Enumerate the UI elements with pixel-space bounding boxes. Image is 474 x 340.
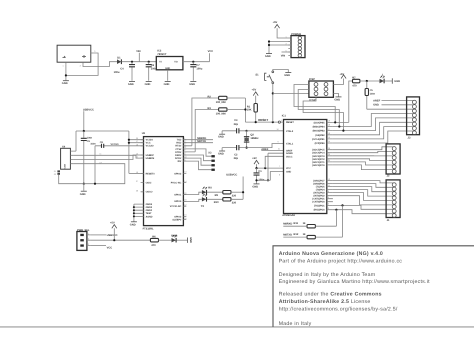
svg-text:X3: X3 — [208, 152, 212, 155]
svg-text:VI: VI — [159, 61, 162, 64]
svg-text:C3: C3 — [234, 119, 238, 122]
wire M8RXD tap — [335, 210, 337, 227]
power jack X1 — [57, 45, 91, 62]
svg-text:16: 16 — [328, 132, 330, 135]
svg-text:SLEEP#: SLEEP# — [172, 218, 182, 221]
svg-text:C2: C2 — [234, 153, 238, 156]
svg-text:470: 470 — [151, 244, 156, 247]
svg-text:GND: GND — [218, 153, 224, 156]
wire usb gnd — [73, 164, 124, 184]
wire PB4 to J3 pin4 — [333, 114, 413, 127]
svg-text:USB: USB — [64, 164, 67, 169]
wire pin1 USBVCC — [90, 234, 117, 237]
svg-text:GPIO0: GPIO0 — [174, 200, 182, 203]
pin numbers atmega right — [328, 120, 330, 210]
wire TXD row to J1 pin7 — [333, 205, 393, 209]
svg-text:VCC3O: VCC3O — [146, 145, 154, 148]
junction — [264, 167, 266, 169]
svg-text:GND3: GND3 — [146, 203, 153, 206]
capacitor C7 — [190, 62, 202, 81]
svg-text:AGND: AGND — [286, 152, 293, 155]
svg-text:470: 470 — [352, 85, 357, 88]
svg-text:GND: GND — [218, 136, 224, 139]
wire VCC output — [183, 53, 210, 62]
wire — [231, 191, 243, 193]
svg-text:100_NM: 100_NM — [216, 101, 226, 104]
svg-text:GND: GND — [145, 83, 151, 86]
svg-text:24: 24 — [328, 159, 330, 162]
junction — [335, 209, 337, 211]
wire AREF to J3 — [373, 99, 413, 102]
svg-text:GND: GND — [373, 104, 379, 107]
svg-text:GND: GND — [128, 83, 134, 86]
svg-text:RX: RX — [208, 187, 212, 190]
svg-text:U3: U3 — [142, 132, 146, 135]
junction — [192, 61, 194, 63]
svg-text:100u: 100u — [196, 68, 202, 71]
svg-text:(MISO)PB4: (MISO)PB4 — [313, 126, 326, 129]
svg-text:GND: GND — [62, 82, 68, 85]
junction — [338, 125, 340, 127]
wire AGND branch — [268, 153, 284, 180]
svg-text:AREF: AREF — [261, 148, 268, 151]
svg-text:11: 11 — [328, 184, 330, 187]
wire ICSP +5V — [333, 79, 343, 85]
wire RESET net — [245, 118, 278, 122]
capacitor C1 — [254, 168, 265, 182]
wire CTS to X3 — [183, 149, 211, 156]
connector PWR_SEL — [77, 229, 91, 251]
+5V symbol — [273, 21, 280, 28]
wire ICSP mosi to PB3 — [303, 97, 343, 130]
wire S1 top to gnd — [273, 70, 289, 73]
svg-text:220: 220 — [232, 202, 237, 205]
svg-text:15: 15 — [136, 153, 138, 156]
svg-text:(ADC0)PC0: (ADC0)PC0 — [312, 164, 325, 167]
svg-text:R7: R7 — [352, 76, 356, 79]
wire ICSP gnd — [333, 94, 338, 97]
junction — [366, 80, 368, 82]
junction — [246, 147, 248, 149]
svg-text:(ADC2)PC2: (ADC2)PC2 — [312, 158, 325, 161]
svg-text:PWR: PWR — [171, 234, 177, 237]
svg-text:(T0)PD4: (T0)PD4 — [316, 189, 326, 192]
svg-text:S1: S1 — [54, 170, 56, 173]
svg-text:C6: C6 — [151, 64, 155, 67]
svg-text:VCCIO: VCCIO — [146, 139, 154, 142]
svg-text:1: 1 — [63, 64, 64, 67]
wire GPIO0 to TX led — [183, 199, 202, 201]
wire XTAL1 — [247, 144, 284, 148]
svg-text:24: 24 — [184, 214, 186, 217]
svg-text:(CNT1)PD1: (CNT1)PD1 — [312, 198, 325, 201]
svg-text:VIN: VIN — [281, 55, 285, 58]
svg-text:GND: GND — [252, 185, 258, 188]
wire led to gnd — [177, 239, 188, 241]
ground — [218, 134, 225, 139]
resistor R3 — [208, 107, 228, 115]
svg-text:15: 15 — [328, 136, 330, 139]
svg-text:GND: GND — [286, 170, 291, 173]
junction — [268, 40, 270, 42]
wire C8 to gnd — [94, 146, 96, 184]
wire PB5 row — [333, 121, 349, 123]
wire D+ — [73, 155, 143, 164]
wire VIN net — [122, 61, 156, 63]
+5V symbol — [252, 89, 259, 96]
svg-text:Part of the Arduino project ht: Part of the Arduino project http://www.a… — [279, 259, 403, 265]
capacitor C9 — [81, 131, 93, 184]
wire to ground — [83, 184, 85, 191]
svg-text:GND: GND — [284, 74, 290, 77]
svg-text:VCC3O: VCC3O — [111, 143, 119, 146]
svg-text:C1: C1 — [258, 170, 262, 173]
wire XTAL2 — [247, 130, 284, 132]
svg-text:16MHz: 16MHz — [250, 137, 259, 140]
wire DCD to X3 — [183, 158, 211, 165]
svg-text:RXD: RXD — [176, 142, 181, 145]
wire PB1 to J3 pin7 — [333, 127, 413, 139]
svg-text:GND: GND — [265, 55, 271, 58]
pin numbers U3 right — [184, 137, 186, 220]
svg-text:GPIO2: GPIO2 — [174, 172, 182, 175]
svg-text:2: 2 — [88, 238, 89, 241]
resistor R9 — [215, 191, 237, 198]
svg-text:27: 27 — [136, 180, 138, 183]
svg-text:R12: R12 — [294, 233, 299, 236]
wire RESET# — [129, 172, 144, 174]
junction — [242, 191, 244, 193]
ground — [252, 184, 259, 189]
svg-text:8: 8 — [279, 174, 280, 177]
svg-text:(INT1)PD3: (INT1)PD3 — [313, 192, 325, 195]
ground — [130, 222, 137, 227]
wire RTS to R2 — [183, 98, 218, 146]
ground — [62, 81, 69, 86]
capacitor C6 — [146, 62, 157, 81]
svg-text:R6: R6 — [152, 235, 156, 238]
svg-text:100n: 100n — [370, 93, 376, 96]
pin 2 stub of X1 — [80, 62, 83, 67]
svg-text:100n: 100n — [87, 137, 93, 140]
svg-text:R9: R9 — [215, 194, 219, 197]
junction — [334, 121, 336, 123]
regulator IC2 7805CT — [156, 50, 183, 70]
svg-text:Q2: Q2 — [250, 133, 254, 136]
svg-text:GND: GND — [189, 237, 192, 243]
wire — [159, 239, 172, 241]
svg-text:1: 1 — [285, 36, 286, 39]
wire PC0 to J2 — [333, 165, 393, 170]
svg-text:3: 3 — [328, 203, 329, 206]
svg-text:Designed in Italy by the Ardui: Designed in Italy by the Arduino Team — [279, 272, 376, 278]
svg-text:POWER: POWER — [291, 33, 301, 36]
svg-text:X4: X4 — [62, 145, 66, 148]
svg-text:OSCO: OSCO — [146, 191, 153, 194]
capacitor C8 — [90, 141, 143, 148]
svg-text:26: 26 — [328, 153, 330, 156]
svg-text:7805CT: 7805CT — [157, 53, 167, 56]
svg-text:22p: 22p — [234, 123, 239, 126]
svg-text:Arduino Nuova Generazione (NG: Arduino Nuova Generazione (NG) v.4.0 — [279, 251, 383, 257]
svg-text:DTR#: DTR# — [175, 151, 182, 154]
wire PD6 to J1 — [333, 184, 393, 188]
wire — [227, 97, 245, 99]
svg-text:17: 17 — [328, 128, 330, 131]
svg-text:OSCI: OSCI — [146, 182, 152, 185]
svg-text:(ADC4)PC4: (ADC4)PC4 — [312, 152, 325, 155]
wire PC4 to J2 — [333, 151, 393, 152]
wire +5V to VCC pin — [257, 164, 284, 168]
svg-text:TX: TX — [201, 205, 205, 208]
wire PB0 to J3 pin8 — [333, 131, 413, 143]
ground — [284, 73, 291, 78]
wire VIN pin — [282, 51, 292, 53]
wire POWER gnd pins — [269, 42, 291, 54]
svg-text:ICSP: ICSP — [309, 78, 315, 81]
svg-text:(INT0)PD2: (INT0)PD2 — [313, 195, 325, 198]
node VCC — [208, 50, 214, 53]
wire PD7 to J1 — [333, 181, 393, 183]
svg-text:USBVCC: USBVCC — [226, 173, 237, 176]
svg-text:AGND: AGND — [146, 215, 153, 218]
svg-text:GND2: GND2 — [146, 206, 153, 209]
wire — [283, 225, 336, 227]
wire led to gnd — [385, 80, 393, 82]
svg-text:USBVCC: USBVCC — [83, 108, 94, 111]
svg-text:C4: C4 — [120, 67, 124, 70]
wire IC2 gnd pin — [167, 70, 169, 81]
svg-text:21: 21 — [278, 148, 280, 151]
svg-text:14: 14 — [328, 140, 330, 143]
IC1 ATMEGA8 — [282, 115, 327, 218]
wire — [207, 191, 223, 193]
pin RESET bubble — [278, 119, 283, 123]
svg-text:+5V: +5V — [252, 89, 257, 92]
wire C3 to gnd — [221, 131, 223, 134]
svg-text:(SCK)PB5: (SCK)PB5 — [314, 121, 326, 124]
svg-text:GND: GND — [165, 67, 170, 70]
junction — [133, 212, 135, 214]
svg-text:S2: S2 — [54, 173, 56, 176]
svg-text:3: 3 — [88, 243, 89, 246]
connector X3 — [208, 152, 214, 171]
junction — [83, 183, 85, 185]
wire PD4 to J1 — [333, 190, 393, 197]
capacitor C3 — [222, 119, 246, 133]
junction — [133, 209, 135, 211]
junction — [133, 206, 135, 208]
svg-text:RESET: RESET — [258, 118, 268, 122]
pin stubs atmega right — [327, 122, 333, 209]
ground — [265, 54, 272, 59]
wire — [360, 80, 380, 82]
wire PC1 to J2 — [333, 162, 393, 165]
svg-text:VCC: VCC — [107, 246, 113, 249]
resistor R12 — [283, 233, 315, 239]
wire +5V to POWER pin1 — [277, 28, 291, 38]
page bottom border — [0, 326, 474, 328]
resistor R11 — [283, 222, 315, 228]
wire DSR to X3 — [183, 155, 211, 161]
svg-text:AVCC: AVCC — [286, 155, 293, 158]
LED RX — [202, 187, 212, 195]
wire gnd pins column — [134, 204, 144, 221]
pin 3 stub of X1 — [91, 50, 95, 53]
ground — [80, 191, 87, 196]
pin stubs U3 left — [141, 140, 144, 192]
svg-text:M8RXD: M8RXD — [283, 222, 292, 225]
svg-text:DCD#: DCD# — [175, 157, 182, 160]
wire — [283, 236, 342, 238]
svg-text:(ADC5)PC5: (ADC5)PC5 — [312, 149, 325, 152]
pin stubs U3 right — [183, 140, 186, 220]
svg-text:100n: 100n — [90, 143, 96, 146]
svg-text:28: 28 — [328, 147, 330, 150]
svg-text:USBDP: USBDP — [146, 154, 155, 157]
junction — [133, 215, 135, 217]
svg-text:R11: R11 — [294, 222, 299, 225]
svg-text:D1: D1 — [117, 57, 121, 60]
wire TXD net M8RXD — [183, 137, 213, 140]
junction — [94, 183, 96, 185]
svg-text:(T1)PD5: (T1)PD5 — [316, 186, 326, 189]
junction — [131, 61, 133, 63]
wire leds to usbvcc — [231, 177, 243, 200]
ground — [188, 237, 192, 243]
LED PWR — [171, 234, 177, 242]
ground — [164, 82, 171, 87]
svg-text:220: 220 — [232, 194, 237, 197]
svg-text:1: 1 — [88, 232, 89, 235]
wire VBUS — [73, 131, 76, 151]
svg-text:USBVCC: USBVCC — [107, 234, 118, 237]
wire M8TXD tap — [342, 205, 344, 237]
svg-text:M8TXD: M8TXD — [197, 140, 206, 143]
svg-text:RESET: RESET — [286, 121, 294, 124]
svg-text:R2: R2 — [208, 96, 212, 99]
svg-text:1: 1 — [281, 119, 282, 122]
svg-text:DSR#: DSR# — [175, 154, 182, 157]
svg-text:+5V: +5V — [273, 21, 278, 24]
svg-text:13: 13 — [184, 171, 186, 174]
node VIN — [136, 50, 140, 61]
svg-text:GND: GND — [164, 83, 170, 86]
wire PB3 to J3 pin5 — [333, 118, 413, 131]
connector X4 usb — [54, 145, 74, 175]
svg-text:+5V: +5V — [110, 221, 115, 224]
wire gnd node — [257, 171, 284, 183]
svg-text:100_NM: 100_NM — [216, 113, 226, 116]
ground — [392, 78, 400, 83]
svg-text:RESET#: RESET# — [146, 172, 156, 175]
svg-text:AREF: AREF — [286, 149, 293, 152]
connector POWER — [291, 33, 305, 58]
svg-text:14: 14 — [136, 156, 138, 159]
svg-text:6: 6 — [328, 190, 329, 193]
junction — [128, 139, 130, 141]
svg-text:9: 9 — [278, 141, 279, 144]
svg-text:2: 2 — [328, 207, 329, 210]
wire pin2 to R6 — [90, 228, 150, 240]
svg-text:4: 4 — [328, 196, 329, 199]
svg-text:CTS#: CTS# — [175, 148, 182, 151]
resistor R7 — [352, 76, 360, 87]
node USBVCC — [83, 108, 94, 131]
resistor R10 — [214, 198, 237, 205]
svg-text:Released under the Creative Co: Released under the Creative Commons — [279, 292, 382, 298]
wire jack tip to D1 — [83, 62, 117, 67]
svg-text:GPIO1: GPIO1 — [174, 193, 182, 196]
wire ICSP sck to PB5 — [294, 85, 335, 123]
svg-text:Attribution-ShareAlike 2.5 Lic: Attribution-ShareAlike 2.5 License — [279, 299, 371, 305]
node USBVCC — [226, 173, 237, 176]
svg-text:(AIN1)PD7: (AIN1)PD7 — [313, 180, 325, 183]
svg-text:GND: GND — [394, 80, 400, 83]
wire RI to X3 — [183, 161, 211, 170]
wire usbvcc rail — [76, 131, 129, 173]
ground — [218, 151, 225, 156]
svg-text:RTS#: RTS# — [175, 145, 182, 148]
wire GND to J3 — [373, 104, 413, 107]
svg-text:(SS)PB2: (SS)PB2 — [315, 134, 325, 137]
crystal Q2 — [244, 131, 259, 148]
svg-text:(AIN0)PD6: (AIN0)PD6 — [313, 183, 325, 186]
+5V symbol — [252, 157, 259, 164]
wire C2 to gnd — [221, 148, 223, 151]
junction — [342, 130, 344, 132]
junction — [255, 167, 257, 169]
node VIN — [281, 55, 285, 58]
svg-text:(ADC3)PC3: (ADC3)PC3 — [312, 155, 325, 158]
svg-text:(RXD)PD0: (RXD)PD0 — [314, 209, 326, 212]
wire jack sleeve to ground — [66, 53, 98, 80]
svg-text:GND: GND — [130, 223, 136, 226]
connector J1 — [386, 180, 400, 222]
svg-text:IC2: IC2 — [157, 50, 162, 53]
svg-text:22p: 22p — [234, 157, 239, 160]
svg-text:100u: 100u — [114, 71, 120, 74]
connector ICSP — [309, 78, 334, 102]
svg-text:FT232RL: FT232RL — [143, 228, 154, 231]
title block text — [279, 251, 430, 327]
svg-text:(OC1A)PB1: (OC1A)PB1 — [312, 138, 325, 141]
wire PB2 to J3 pin6 — [333, 122, 413, 135]
wire DTR to R3 — [183, 109, 218, 151]
wire pin3 VCC — [90, 246, 112, 250]
svg-text:IC1: IC1 — [282, 115, 287, 118]
LED TX — [201, 194, 207, 208]
wire VCCIO VCC to rail — [129, 140, 144, 143]
wire PC3 to J2 — [333, 155, 393, 157]
wire GPIO1 to RX led — [183, 192, 202, 194]
resistor R6 — [150, 235, 158, 247]
svg-text:GND4: GND4 — [146, 209, 153, 212]
junction — [246, 130, 248, 132]
svg-text:2: 2 — [80, 64, 81, 67]
wire PD2 to J1 — [333, 196, 393, 205]
wire R7 feed from PB5 — [349, 81, 353, 122]
wire D- — [73, 153, 143, 159]
+5V symbol — [340, 73, 347, 79]
wire AVCC branch — [265, 156, 283, 168]
junction — [113, 239, 115, 241]
svg-text:(MOSI)PB3: (MOSI)PB3 — [313, 130, 326, 133]
svg-text:PVCC-NC: PVCC-NC — [171, 182, 182, 185]
resistor R2 — [208, 96, 228, 104]
svg-text:XTAL1: XTAL1 — [286, 143, 294, 146]
svg-text:25: 25 — [184, 217, 186, 220]
